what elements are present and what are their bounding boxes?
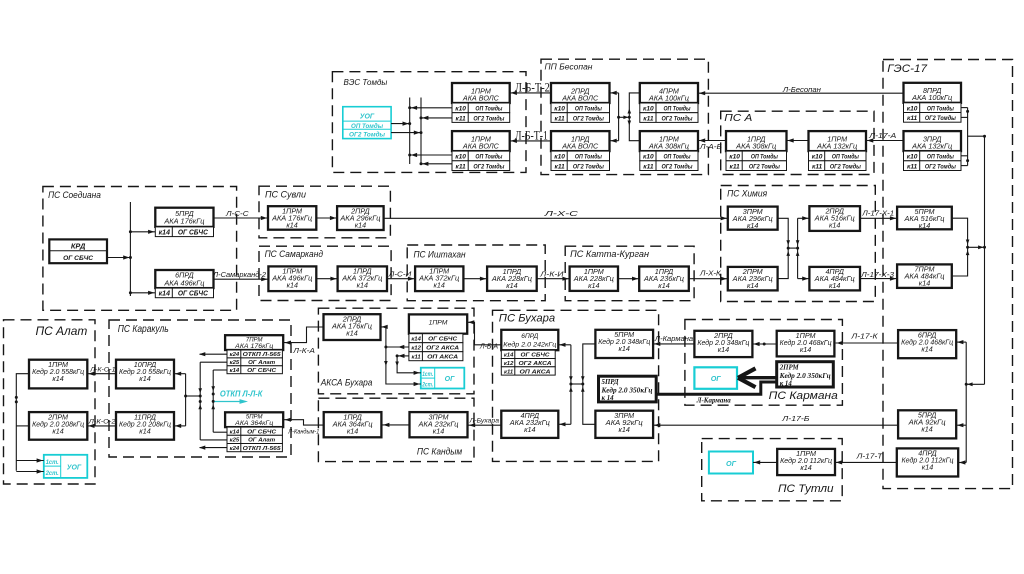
wire к11 row upper to bus bbox=[421, 116, 452, 120]
svg-text:2ст.: 2ст. bbox=[421, 382, 433, 388]
receiver 1ПРМ АКА ВОЛС (Томды upper) bbox=[452, 83, 510, 103]
svg-text:к11: к11 bbox=[907, 163, 918, 170]
transmitter 8ПРД АКА 100кГц (ГЭС-17) rows bbox=[904, 103, 962, 122]
label Л-17-Т bbox=[855, 451, 883, 460]
svg-text:Л-Б-Т-1: Л-Б-Т-1 bbox=[515, 127, 548, 142]
svg-text:к14: к14 bbox=[139, 426, 150, 435]
transmitter 4ПРД Кедр 2.0 112кГц (ГЭС-17) bbox=[897, 448, 958, 476]
station box ПС А bbox=[721, 111, 874, 174]
label Л-17-Б bbox=[781, 414, 810, 423]
wire ГЭС-17 bus link bbox=[968, 135, 986, 138]
label АКСА Бухара bbox=[320, 378, 373, 388]
svg-text:ПС Самарканд: ПС Самарканд bbox=[265, 249, 324, 259]
wire Л-Кармана (Кедр 348) bbox=[653, 342, 694, 346]
label Л-Кандым-1 bbox=[287, 428, 319, 436]
receiver 1ПРМ АКА ВОЛС (Томды lower) rows bbox=[452, 151, 510, 170]
svg-text:АКА ВОЛС: АКА ВОЛС bbox=[462, 141, 500, 150]
svg-text:к10: к10 bbox=[455, 106, 466, 113]
svg-text:1ст.: 1ст. bbox=[46, 459, 59, 466]
receiver 1ПРМ АКА 176кГц (Сувли) bbox=[268, 206, 316, 230]
svg-text:ОГ СБЧС: ОГ СБЧС bbox=[178, 291, 209, 298]
label Л-К-О-2 bbox=[88, 419, 116, 426]
wire к10 row upper to bus bbox=[410, 106, 452, 110]
svg-text:ОГ: ОГ bbox=[726, 459, 737, 468]
transmitter 6ПРД Кедр 2.0 468кГц (ГЭС-17) bbox=[898, 330, 956, 358]
svg-text:к14: к14 bbox=[504, 353, 514, 359]
svg-text:к14: к14 bbox=[919, 279, 930, 288]
svg-text:ОГ СБЧС: ОГ СБЧС bbox=[247, 430, 277, 436]
wire Л-С-С bbox=[214, 216, 269, 220]
wire Л-Б-Т-2 bbox=[510, 91, 551, 95]
wire Л-К-А bbox=[284, 327, 324, 345]
svg-text:Л-Х-С: Л-Х-С bbox=[543, 209, 579, 218]
transmitter 1ПРД АКА 228кГц (Иштахан) bbox=[487, 267, 537, 291]
label Л-Х-С bbox=[543, 209, 579, 218]
svg-text:1ст.: 1ст. bbox=[422, 372, 433, 378]
6ПРД row к14 ОГ СБЧС bbox=[155, 288, 213, 298]
svg-text:к14: к14 bbox=[433, 426, 444, 435]
svg-text:к11: к11 bbox=[730, 163, 741, 170]
label ПС Каракуль bbox=[118, 324, 169, 335]
wire Л-Кармана thick (Кедр 350) bbox=[656, 382, 777, 394]
label ПС Алат bbox=[36, 324, 88, 338]
svg-text:ПС Соедиана: ПС Соедиана bbox=[48, 190, 101, 200]
svg-text:ОГ: ОГ bbox=[711, 374, 722, 383]
station box ВЭС Томды bbox=[332, 72, 526, 173]
receiver 1ПРМ АКА ВОЛС (Томды lower) bbox=[452, 131, 510, 151]
transmitter 1ПРД АКА 372кГц (Самарканд) bbox=[338, 266, 387, 291]
transmitter 2ПРД АКА ВОЛС (Бесопан) rows bbox=[551, 103, 610, 122]
label ПС Химия bbox=[727, 188, 767, 198]
svg-text:ОГ2 Томды: ОГ2 Томды bbox=[473, 114, 504, 122]
svg-text:Л-17-А: Л-17-А bbox=[868, 131, 896, 140]
receiver 5ПРМ Кедр 2.0 348кГц (Бухара) bbox=[595, 330, 653, 358]
wire Л-А-Б bbox=[698, 138, 726, 142]
wire Л-Х-С bbox=[384, 216, 728, 220]
receiver 3ПРМ АКА 92кГц (Бухара) bbox=[595, 411, 653, 438]
wire bus to 5ПРД к14 row bbox=[130, 230, 155, 234]
station box ПС Самарканд bbox=[259, 246, 391, 300]
receiver 1ПРМ АКА 308кГц (Бесопан) bbox=[640, 131, 698, 151]
receiver 7ПРМ АКА 484кГц (ГЭС-17) bbox=[897, 264, 952, 288]
svg-text:ОТКП Л-Л-К: ОТКП Л-Л-К bbox=[220, 389, 264, 398]
svg-text:АКА 176кГц: АКА 176кГц bbox=[163, 216, 204, 225]
svg-text:к11: к11 bbox=[643, 163, 654, 170]
wire 1ПРМ to 2ПРД (Сувли) bbox=[316, 216, 337, 220]
svg-text:ОГ2 Томды: ОГ2 Томды bbox=[473, 162, 504, 170]
wire ГЭС-17 distribution link bbox=[965, 382, 985, 386]
wire Л-Кандым-1 bbox=[284, 418, 324, 426]
svg-text:АКА 100кГц: АКА 100кГц bbox=[911, 93, 952, 102]
svg-text:Л-17-Х-3: Л-17-Х-3 bbox=[860, 272, 894, 279]
transmitter 5ПРД АКА 92кГц (ГЭС-17) bbox=[898, 410, 956, 438]
svg-text:к25: к25 bbox=[230, 360, 240, 366]
svg-text:Л-Кандым-1: Л-Кандым-1 bbox=[287, 428, 319, 436]
station box ПС Химия bbox=[721, 186, 876, 302]
oscillator ОГ box (Тутли, cyan) bbox=[709, 452, 753, 474]
svg-text:ОГ2 Томды: ОГ2 Томды bbox=[349, 133, 386, 139]
svg-text:2ст.: 2ст. bbox=[45, 470, 59, 477]
7ПРМ rows bbox=[227, 350, 282, 374]
svg-text:к14: к14 bbox=[800, 463, 811, 472]
wire 1ПРМ to 2ПРД (Кармана) bbox=[752, 342, 776, 346]
transmitter 5ПРД Кедр 2.0 350кГц (Бухара, added) bbox=[599, 376, 657, 402]
receiver 4ПРМ АКА 100кГц (Бесопан) bbox=[640, 83, 698, 103]
station box ПС Иштахан bbox=[407, 245, 545, 301]
label Л-Б-А bbox=[479, 343, 498, 350]
label ПС Кандым bbox=[417, 447, 463, 457]
svg-text:ОГ СБЧС: ОГ СБЧС bbox=[521, 353, 551, 359]
svg-text:2ПРМ: 2ПРМ bbox=[779, 365, 800, 372]
svg-text:к 14: к 14 bbox=[780, 380, 793, 387]
svg-text:к11: к11 bbox=[907, 115, 918, 122]
transmitter 1ПРД АКА ВОЛС (Бесопан) rows bbox=[551, 151, 610, 170]
label ГЭС-17 bbox=[887, 63, 928, 75]
svg-text:к10: к10 bbox=[554, 106, 565, 113]
wire Л-Самарканд-2 bbox=[214, 277, 269, 281]
svg-text:ОП АКСА: ОП АКСА bbox=[427, 355, 458, 361]
svg-text:АКА 496кГц: АКА 496кГц bbox=[163, 278, 204, 287]
svg-text:к14: к14 bbox=[829, 221, 840, 230]
svg-text:ОГ2 Томды: ОГ2 Томды bbox=[573, 162, 604, 170]
wire 1ПРМ to 1ПРД (Иштахан) bbox=[463, 277, 487, 281]
svg-text:к14: к14 bbox=[357, 281, 368, 290]
receiver 7ПРМ АКА 176кГц (Каракуль) bbox=[225, 335, 283, 350]
svg-text:Л-С-И: Л-С-И bbox=[388, 272, 413, 279]
wire 1ПРМ to 1ПРД (ПС А) bbox=[787, 138, 809, 142]
label ПС Сувли bbox=[265, 190, 306, 200]
svg-text:АКА 132кГц: АКА 132кГц bbox=[911, 141, 952, 150]
svg-text:Л-Бесопан: Л-Бесопан bbox=[782, 85, 821, 94]
label Л-К-А bbox=[292, 348, 315, 355]
label ПС Тутли bbox=[778, 483, 834, 495]
station box ПС Соедиана bbox=[43, 187, 237, 311]
svg-text:к14: к14 bbox=[347, 426, 358, 435]
svg-text:ОТКП Л-565: ОТКП Л-565 bbox=[243, 446, 282, 452]
svg-text:ОП Томды: ОП Томды bbox=[927, 153, 954, 161]
wire Химия combiner bbox=[778, 216, 810, 281]
svg-text:к14: к14 bbox=[919, 221, 930, 230]
5ПРМ rows bbox=[227, 427, 282, 452]
svg-text:к14: к14 bbox=[588, 281, 599, 290]
svg-text:ОП Томды: ОП Томды bbox=[664, 153, 691, 161]
receiver 5ПРМ АКА 364кГц (Каракуль) bbox=[225, 412, 283, 427]
wire Л-К-И bbox=[537, 277, 570, 281]
svg-text:к11: к11 bbox=[643, 115, 654, 122]
wire АКСА bus 1 bbox=[381, 325, 421, 386]
svg-text:к11: к11 bbox=[412, 355, 421, 361]
transmitter 4ПРД АКА 232кГц (Бухара) bbox=[501, 411, 558, 438]
svg-text:к14: к14 bbox=[921, 425, 932, 434]
wire 1ПРМ to ОГ (Тутли) bbox=[753, 460, 777, 464]
svg-text:к14: к14 bbox=[747, 281, 758, 290]
wire 3ПРМ to 1ПРД (Кандым) bbox=[382, 423, 409, 427]
5ПРД row к14 ОГ СБЧС bbox=[155, 227, 213, 237]
receiver 1ПРМ АКА 308кГц (Бесопан) rows bbox=[640, 151, 698, 170]
svg-text:ГЭС-17: ГЭС-17 bbox=[887, 63, 928, 75]
svg-text:УОГ: УОГ bbox=[360, 114, 375, 121]
svg-text:ОГ2 Томды: ОГ2 Томды bbox=[830, 162, 861, 170]
svg-text:ВЭС Томды: ВЭС Томды bbox=[344, 77, 388, 87]
wire Каракуль bus A (ОГ Алат) bbox=[198, 362, 227, 440]
svg-text:к14: к14 bbox=[52, 426, 63, 435]
svg-text:Л-17-Т: Л-17-Т bbox=[855, 451, 883, 460]
wire АКСА bus 2 bbox=[395, 354, 421, 375]
svg-text:к14: к14 bbox=[230, 430, 240, 436]
label ПС Иштахан bbox=[414, 249, 466, 259]
svg-text:к11: к11 bbox=[456, 163, 467, 170]
svg-text:Л-К-А: Л-К-А bbox=[292, 348, 315, 355]
svg-text:5ПРМ: 5ПРМ bbox=[246, 415, 263, 421]
label Л-К-О-1 bbox=[89, 367, 116, 374]
svg-text:к14: к14 bbox=[921, 344, 932, 353]
receiver 1ПРМ Кедр 2.0 468кГц (Кармана) bbox=[777, 331, 835, 357]
svg-text:к14: к14 bbox=[524, 425, 535, 434]
6ПРД rows (Бухара) bbox=[501, 350, 555, 375]
wire Л-17-А bbox=[866, 138, 903, 142]
svg-text:ОГ2 Томды: ОГ2 Томды bbox=[925, 114, 956, 122]
station box ПС Тутли bbox=[702, 439, 843, 501]
combiner КРД / ОГ СБЧС (Соедиана) bbox=[49, 239, 107, 263]
receiver 5ПРМ АКА 516кГц (ГЭС-17) bbox=[897, 207, 952, 230]
svg-text:АКА ВОЛС: АКА ВОЛС bbox=[462, 93, 500, 102]
svg-text:к10: к10 bbox=[643, 154, 654, 161]
svg-text:Кедр 2.0 350кГц: Кедр 2.0 350кГц bbox=[779, 373, 831, 380]
svg-text:к14: к14 bbox=[718, 345, 729, 354]
svg-text:к10: к10 bbox=[907, 105, 918, 112]
label Л-Самарканд-2 bbox=[212, 271, 266, 279]
transmitter 6ПРД АКА 496кГц (Соедиана) bbox=[155, 270, 213, 288]
wire Л-С-И bbox=[387, 277, 415, 281]
svg-text:АКА ВОЛС: АКА ВОЛС bbox=[561, 141, 599, 150]
transmitter 6ПРД Кедр 2.0 242кГц (Бухара) bbox=[501, 330, 558, 350]
wire ОТКП output (5ПРМ к24) bbox=[199, 446, 227, 450]
wire bus to УОГ 2ст (Алат) bbox=[16, 469, 44, 473]
svg-text:к25: к25 bbox=[230, 438, 240, 444]
receiver 3ПРМ АКА 296кГц (Химия) bbox=[728, 207, 778, 230]
svg-text:ОП Томды: ОП Томды bbox=[751, 153, 778, 161]
station box ПС Бухара bbox=[493, 310, 659, 461]
wire ГЭС-17 bus 1 (8ПРД/3ПРД pickup) bbox=[961, 108, 969, 166]
svg-text:ОП Томды: ОП Томды bbox=[927, 104, 954, 112]
svg-text:к24: к24 bbox=[230, 352, 240, 358]
svg-text:к14: к14 bbox=[52, 374, 63, 383]
receiver 3ПРМ АКА 232кГц (Кандым) bbox=[410, 412, 468, 437]
svg-text:Л-А-Б: Л-А-Б bbox=[699, 144, 723, 151]
svg-text:к14: к14 bbox=[411, 337, 421, 343]
label Л-Бухара bbox=[469, 417, 500, 424]
wire к11 row to bus (АКСА) bbox=[397, 354, 409, 358]
label Л-17-Х-1 bbox=[861, 211, 894, 218]
svg-text:к14: к14 bbox=[159, 230, 170, 237]
svg-text:7ПРМ: 7ПРМ bbox=[246, 337, 263, 343]
svg-text:ОГ Алат: ОГ Алат bbox=[248, 438, 275, 444]
svg-text:КРД: КРД bbox=[71, 242, 86, 251]
label Л-С-И bbox=[388, 272, 413, 279]
svg-text:Л-К-О-1: Л-К-О-1 bbox=[89, 367, 116, 374]
svg-text:к14: к14 bbox=[506, 281, 517, 290]
receiver 1ПРМ АКА 228кГц (Катта-Курган) bbox=[570, 267, 618, 291]
wire ГЭС-17 main bus bbox=[983, 136, 986, 384]
svg-text:к14: к14 bbox=[619, 425, 630, 434]
svg-text:к12: к12 bbox=[504, 361, 514, 367]
oscillator УОГ box (Томды, cyan) bbox=[343, 107, 391, 139]
wire Каракуль bus B (ОГ СБЧС) bbox=[211, 370, 227, 432]
receiver 2ПРМ Кедр 2.0 350кГц (Кармана, added) bbox=[777, 362, 834, 388]
svg-text:ОП Томды: ОП Томды bbox=[832, 153, 859, 161]
wire Бухара combiner bbox=[558, 343, 595, 427]
transmitter 2ПРД АКА 516кГц (Химия) bbox=[809, 206, 860, 231]
svg-text:к14: к14 bbox=[800, 345, 811, 354]
wire Бесопан bus 1 bbox=[610, 91, 619, 143]
svg-text:к11: к11 bbox=[456, 115, 467, 122]
label ПС А bbox=[724, 113, 752, 124]
transmitter 1ПРД АКА 236кГц (Катта-Курган) bbox=[639, 267, 689, 291]
svg-text:АКСА Бухара: АКСА Бухара bbox=[320, 378, 373, 388]
wire Л-К-О-1 bbox=[87, 372, 116, 376]
svg-text:к11: к11 bbox=[504, 369, 513, 375]
wire Алат bus bbox=[15, 374, 29, 471]
wire Л-К-О-2 bbox=[87, 424, 116, 428]
label ПС Самарканд bbox=[265, 249, 324, 259]
oscillator УОГ box (Алат, cyan) bbox=[44, 455, 88, 478]
transmitter 3ПРД АКА 132кГц (ГЭС-17) rows bbox=[904, 151, 962, 170]
wire 1ПРМ to 1ПРД (Самарканд) bbox=[316, 277, 337, 281]
svg-text:Л-Бухара: Л-Бухара bbox=[469, 417, 500, 424]
svg-text:ПС Химия: ПС Химия bbox=[727, 188, 767, 198]
svg-text:ОГ2 Томды: ОГ2 Томды bbox=[749, 162, 780, 170]
wire 5ПРМ/7ПРМ combiner (ГЭС-17) bbox=[952, 218, 985, 276]
wire Соедиана bus bbox=[129, 202, 132, 296]
transmitter 2ПРД АКА 176кГц (АКСА Бухара) bbox=[324, 314, 381, 340]
transmitter 5ПРД АКА 176кГц (Соедиана) bbox=[155, 208, 213, 227]
wire к12 row to bus (АКСА) bbox=[386, 345, 409, 349]
svg-text:ОГ СБЧС: ОГ СБЧС bbox=[247, 368, 277, 374]
svg-text:к14: к14 bbox=[346, 329, 357, 338]
svg-text:к14: к14 bbox=[829, 281, 840, 290]
station box ПС Кандым bbox=[318, 398, 474, 461]
label Л-17-К bbox=[850, 331, 878, 340]
svg-text:Л-Б-А: Л-Б-А bbox=[479, 343, 498, 350]
svg-text:АКА 364кГц: АКА 364кГц bbox=[234, 421, 274, 427]
transmitter 4ПРД АКА 484кГц (Химия) bbox=[809, 267, 860, 291]
wire ОТКП arrow (cyan) bbox=[215, 399, 249, 404]
wire к10 row lower to bus bbox=[410, 153, 452, 157]
wire ОТКП output (7ПРМ к24) bbox=[199, 352, 227, 356]
svg-text:ПС Кармана: ПС Кармана bbox=[769, 390, 838, 402]
receiver 1ПРМ АКА 372кГц (Иштахан) bbox=[415, 266, 463, 291]
svg-text:к11: к11 bbox=[555, 163, 566, 170]
station box ГЭС-17 bbox=[883, 60, 1013, 489]
svg-text:ОГ2 АКСА: ОГ2 АКСА bbox=[426, 346, 459, 352]
receiver 1ПРМ (АКСА Бухара) bbox=[409, 314, 467, 333]
label Л-Кармана (thick line) bbox=[696, 395, 731, 404]
wire УОГ row 2 to bus bbox=[391, 131, 421, 135]
svg-text:к 14: к 14 bbox=[602, 395, 615, 402]
wire Л-17-Б bbox=[653, 423, 898, 427]
svg-text:к11: к11 bbox=[555, 115, 566, 122]
label Л-Кармана bbox=[654, 336, 693, 343]
wire 1ПРМ to 1ПРД (Катта-Курган) bbox=[618, 277, 639, 281]
svg-text:ПС Кандым: ПС Кандым bbox=[417, 447, 463, 457]
label Л-К-И bbox=[539, 272, 565, 279]
label Л-17-А bbox=[868, 131, 896, 140]
1ПРМ rows (АКСА Бухара) bbox=[409, 334, 463, 361]
station box ПП Бесопан bbox=[541, 59, 708, 174]
svg-text:Кедр 2.0 350кГц: Кедр 2.0 350кГц bbox=[600, 388, 652, 395]
transmitter 1ПРД АКА 308кГц (ПС А) bbox=[726, 131, 787, 151]
transmitter 1ПРД АКА 308кГц (ПС А) rows bbox=[726, 151, 787, 170]
svg-text:ПС Иштахан: ПС Иштахан bbox=[414, 249, 466, 259]
wire Л-Бухара bbox=[468, 423, 501, 427]
svg-text:к14: к14 bbox=[139, 374, 150, 383]
svg-text:АКА 100кГц: АКА 100кГц bbox=[648, 93, 689, 102]
svg-text:Кедр 2.0 242кГц: Кедр 2.0 242кГц bbox=[503, 341, 556, 349]
oscillator ОГ box (Кармана, cyan) bbox=[694, 367, 737, 389]
label ПС Бухара bbox=[499, 313, 555, 325]
svg-text:АКА 132кГц: АКА 132кГц bbox=[816, 141, 857, 150]
station box ПС Алат bbox=[4, 320, 96, 484]
svg-text:ПС Катта-Курган: ПС Катта-Курган bbox=[570, 249, 649, 259]
svg-text:ОТКП Л-565: ОТКП Л-565 bbox=[243, 352, 282, 358]
transmitter 11ПРД Кедр 2.0 208кГц (Каракуль) bbox=[116, 412, 174, 440]
transmitter 2ПРД АКА 296кГц (Сувли) bbox=[337, 206, 384, 230]
svg-text:6ПРД: 6ПРД bbox=[521, 333, 538, 340]
svg-text:к14: к14 bbox=[747, 221, 758, 230]
svg-text:ПС А: ПС А bbox=[724, 113, 752, 124]
svg-text:ОП Томды: ОП Томды bbox=[664, 105, 691, 113]
receiver 1ПРМ АКА 496кГц (Самарканд) bbox=[268, 266, 316, 291]
receiver 1ПРМ АКА ВОЛС (Томды upper) rows bbox=[452, 103, 510, 122]
svg-text:к14: к14 bbox=[922, 463, 933, 472]
wire Л-17-К bbox=[836, 341, 899, 345]
svg-text:к14: к14 bbox=[230, 368, 240, 374]
receiver 4ПРМ АКА 100кГц (Бесопан) rows bbox=[640, 103, 698, 122]
svg-text:к10: к10 bbox=[455, 154, 466, 161]
svg-text:ОГ: ОГ bbox=[445, 376, 455, 383]
receiver 2ПРМ АКА 236кГц (Химия) bbox=[728, 267, 778, 291]
label ПС Соедиана bbox=[48, 190, 101, 200]
svg-text:к12: к12 bbox=[411, 346, 421, 352]
transmitter 10ПРД Кедр 2.0 558кГц (Каракуль) bbox=[116, 360, 174, 389]
label Л-Бесопан bbox=[782, 85, 821, 94]
wire Л-17-Х-3 bbox=[860, 277, 897, 281]
wire Л-Б-Т-1 bbox=[510, 139, 551, 143]
svg-text:ОП Томды: ОП Томды bbox=[475, 105, 502, 113]
svg-text:к14: к14 bbox=[159, 291, 170, 298]
wire 2ПРМ to ОГ thick arrow (Кармана) bbox=[738, 368, 777, 387]
svg-text:к14: к14 bbox=[658, 281, 669, 290]
svg-text:ПС Каракуль: ПС Каракуль bbox=[118, 324, 169, 335]
svg-text:Л-17-Х-1: Л-17-Х-1 bbox=[861, 211, 894, 218]
receiver 1ПРМ АКА 132кГц (ПС А) bbox=[809, 131, 867, 151]
node Бесопан bus link bbox=[617, 116, 631, 120]
receiver 2ПРМ Кедр 2.0 208кГц (Алат) bbox=[29, 412, 87, 440]
wire Бесопан bus 2 bbox=[628, 93, 640, 141]
label ПП Бесопан bbox=[545, 62, 593, 72]
svg-text:ПП Бесопан: ПП Бесопан bbox=[545, 62, 593, 72]
svg-text:к10: к10 bbox=[554, 154, 565, 161]
wire Л-17-Х-1 bbox=[860, 216, 897, 220]
wire ГЭС-17 bus 3 (6ПРД/5ПРД/4ПРД feed) bbox=[956, 340, 966, 465]
label Л-С-С bbox=[225, 209, 250, 218]
label Л-Б-Т-2 bbox=[515, 80, 550, 95]
label Л-17-Х-3 bbox=[860, 272, 894, 279]
transmitter 2ПРД АКА ВОЛС (Бесопан) bbox=[551, 83, 610, 103]
svg-text:к24: к24 bbox=[230, 446, 240, 452]
svg-text:Л-Б-Т-2: Л-Б-Т-2 bbox=[515, 80, 550, 95]
svg-text:ОГ2 Томды: ОГ2 Томды bbox=[662, 162, 693, 170]
